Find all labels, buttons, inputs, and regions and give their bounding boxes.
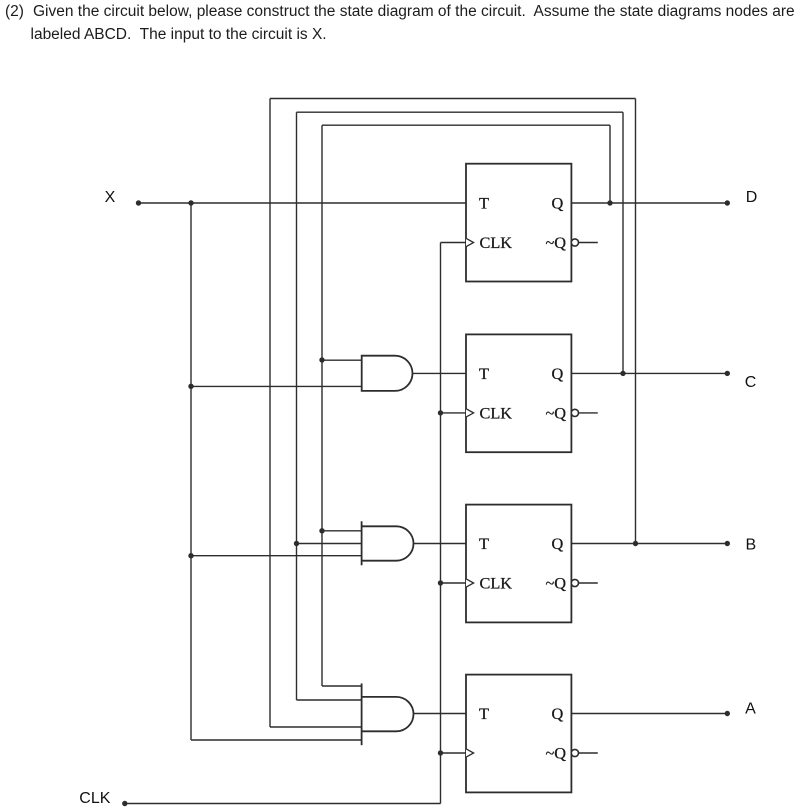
wire Q of U3 to node B	[571, 543, 727, 545]
svg-text:~Q: ~Q	[546, 233, 567, 252]
wire feedback C left vertical	[296, 112, 298, 700]
wire AND gate G4 output to T of U4	[414, 713, 467, 715]
node D endpoint dot	[725, 200, 730, 205]
flip-flop U3 box	[466, 505, 571, 623]
node junction X to AND gate G3 input	[188, 553, 193, 558]
wire D to AND gate G2 upper input	[322, 359, 362, 361]
wire AND gate G2 output to T of U2	[413, 372, 467, 374]
flip-flop U1 clock edge triangle	[466, 238, 474, 246]
svg-text:Q: Q	[552, 534, 564, 553]
svg-text:Q: Q	[552, 364, 564, 383]
wire X input horizontal to T of flip-flop U1	[139, 202, 467, 204]
wire feedback D left vertical	[321, 125, 323, 686]
node A endpoint dot	[725, 711, 730, 716]
svg-text:Q: Q	[552, 704, 564, 723]
node junction D at Q of flip-flop U1	[607, 200, 612, 205]
wire Q of U2 to node C	[571, 372, 727, 374]
svg-text:CLK: CLK	[480, 404, 513, 423]
wire AND gate G3 output to T of U3	[414, 543, 467, 545]
node junction C at Q of flip-flop U2	[620, 371, 625, 376]
flip-flop U2 box	[466, 334, 571, 452]
svg-text:D: D	[746, 189, 758, 206]
wire feedback C right vertical	[622, 112, 624, 373]
wire CLK stub to U3	[441, 582, 467, 584]
AND gate G3 (3-input) body	[362, 526, 414, 560]
flip-flop U3 ~Q inversion bubble	[571, 579, 578, 586]
svg-text:CLK: CLK	[480, 574, 513, 593]
flip-flop U2 clock edge triangle	[466, 409, 474, 417]
node junction X to AND gate G2 input	[188, 384, 193, 389]
wire feedback D right vertical	[609, 125, 611, 203]
svg-text:T: T	[479, 704, 489, 723]
wire CLK stub to U2	[441, 412, 467, 414]
node junction C to AND gate G3 middle input	[294, 541, 299, 546]
node C endpoint dot	[725, 371, 730, 376]
flip-flop U4 box	[466, 675, 571, 793]
wire C to AND gate G4 input 2	[297, 699, 362, 701]
wire D to AND gate G3 upper input	[322, 530, 362, 532]
wire X to AND gate G4 lower input	[191, 739, 362, 741]
node junction B at Q of flip-flop U3	[633, 541, 638, 546]
wire CLK vertical trunk	[440, 243, 442, 804]
svg-text:C: C	[745, 374, 757, 391]
flip-flop U4 ~Q inversion bubble	[571, 749, 578, 756]
svg-text:CLK: CLK	[480, 233, 513, 252]
node junction CLK to U2	[438, 410, 443, 415]
wire CLK stub to U1	[441, 242, 467, 244]
node X source dot	[136, 200, 141, 205]
flip-flop U1 ~Q inversion bubble	[571, 239, 578, 246]
node CLK source dot	[122, 801, 127, 806]
wire Q of U1 to node D	[571, 202, 727, 204]
problem statement text	[5, 4, 24, 20]
wire Q of U4 to node A	[571, 713, 727, 715]
wire feedback D top horizontal	[322, 124, 610, 126]
svg-text:T: T	[479, 194, 489, 213]
node junction X branch on input line	[188, 200, 193, 205]
svg-text:Q: Q	[552, 194, 564, 213]
svg-text:CLK: CLK	[79, 790, 110, 807]
svg-text:T: T	[479, 534, 489, 553]
wire ~Q stub of U2	[579, 412, 598, 414]
flip-flop U4 clock edge triangle	[466, 749, 474, 757]
wire CLK bottom horizontal	[125, 803, 441, 805]
svg-text:~Q: ~Q	[546, 404, 567, 423]
node junction CLK to U3	[438, 580, 443, 585]
AND gate G2 (2-input)	[362, 356, 413, 391]
flip-flop U3 clock edge triangle	[466, 579, 474, 587]
AND gate G4 (4-input) body	[362, 697, 414, 731]
svg-text:T: T	[479, 364, 489, 383]
wire X to AND gate G2 lower input	[191, 385, 362, 387]
svg-text:B: B	[745, 537, 756, 554]
wire CLK stub to U4	[441, 752, 467, 754]
flip-flop U2 ~Q inversion bubble	[571, 409, 578, 416]
svg-text:X: X	[105, 189, 116, 206]
wire feedback B to AND gate G4 input 3	[270, 726, 362, 728]
wire ~Q stub of U1	[579, 242, 598, 244]
AND gate G4 input bar	[361, 683, 363, 745]
node junction D to AND gate G3 upper input	[319, 528, 324, 533]
svg-text:A: A	[745, 701, 756, 718]
wire ~Q stub of U3	[579, 582, 598, 584]
wire feedback C top horizontal	[297, 111, 624, 113]
wire C to AND gate G3 middle input	[297, 543, 362, 545]
wire X vertical branch down	[190, 203, 192, 740]
wire ~Q stub of U4	[579, 752, 598, 754]
svg-text:~Q: ~Q	[546, 574, 567, 593]
node B endpoint dot	[725, 541, 730, 546]
wire feedback B left vertical	[269, 99, 271, 728]
node junction CLK to U4	[438, 750, 443, 755]
flip-flop U1 box	[466, 164, 571, 282]
wire feedback B top horizontal	[270, 98, 636, 100]
svg-text:~Q: ~Q	[546, 744, 567, 763]
node junction D to AND gate G2 upper input	[319, 357, 324, 362]
wire X to AND gate G3 lower input	[191, 555, 362, 557]
AND gate G3 input bar	[361, 521, 363, 565]
wire feedback B right vertical	[635, 99, 637, 544]
wire D to AND gate G4 input 1	[322, 685, 362, 687]
